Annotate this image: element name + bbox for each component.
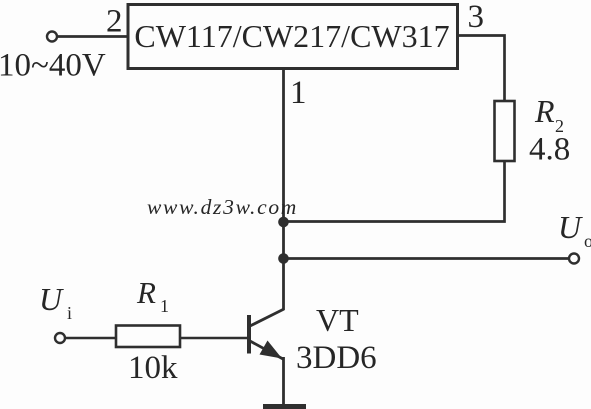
terminal: output Uo [569,254,579,264]
wire: node B to output terminal [284,257,569,260]
svg-text:CW117/CW217/CW317: CW117/CW217/CW317 [134,18,449,54]
regulator IC U1 CW117/CW217/CW317 [128,5,458,69]
terminal: input Ui [55,333,65,343]
junction node B [278,253,289,264]
svg-text:R: R [136,275,156,310]
svg-text:3DD6: 3DD6 [296,340,377,376]
wire: pin 3 to R2 top [459,36,505,102]
wire: pin 1 vertical (box bottom to collector) [282,68,285,310]
wire: Ui terminal to R1 [66,337,117,340]
wire: R2 bottom down and left to node A [284,161,505,222]
wire: R1 to transistor base [180,337,248,340]
svg-text:o: o [584,231,591,251]
svg-text:2: 2 [106,4,123,40]
transistor VT 3DD6 (NPN) [247,309,284,359]
label Uo [558,209,591,251]
svg-text:10~40V: 10~40V [0,48,106,84]
svg-text:1: 1 [290,75,307,111]
wire: input terminal to pin 2 [58,35,128,38]
svg-text:3: 3 [468,0,485,35]
ground [263,404,306,409]
svg-text:4.8: 4.8 [529,132,570,168]
resistor R1 [116,326,180,348]
svg-text:10k: 10k [128,350,178,386]
wire: emitter down to ground [282,357,285,405]
svg-text:U: U [39,281,64,317]
svg-text:i: i [67,303,72,323]
svg-text:VT: VT [316,302,359,338]
label R2 [534,93,564,136]
svg-text:www.dz3w.com: www.dz3w.com [147,195,298,219]
junction node A [278,217,289,228]
label Ui [39,281,72,323]
label R1 [136,275,169,316]
terminal: input (10~40V) [47,32,57,42]
svg-text:U: U [558,209,583,245]
resistor R2 [495,101,515,161]
svg-text:1: 1 [160,296,169,316]
svg-text:R: R [534,93,555,129]
